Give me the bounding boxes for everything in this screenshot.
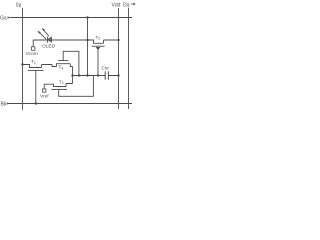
- svg-text:Vcom: Vcom: [26, 51, 38, 57]
- svg-text:T2: T2: [96, 35, 101, 41]
- svg-text:0p: 0p: [16, 2, 22, 8]
- svg-text:OLED: OLED: [42, 44, 56, 50]
- T2 gate lead down to storage node: [97, 50, 99, 76]
- junction T2 drain / Vdd: [117, 39, 119, 41]
- junction vertical net / storage wire: [86, 74, 88, 76]
- transistor T1 (switch TFT, gate to Bk line): [23, 65, 53, 71]
- svg-text:Cst: Cst: [102, 66, 110, 72]
- wire: vertical power bus Vdd (x=118): [118, 8, 120, 109]
- junction T1 source / Cp bus: [21, 63, 23, 65]
- wire: vertical bus Cp (x=22): [22, 8, 24, 110]
- transistor T3 (reset TFT from Vref): [44, 76, 93, 97]
- transistor T2 (drive TFT at Vdd): [88, 40, 119, 46]
- capacitor Cst: [105, 71, 108, 79]
- junction T4 gate loop / storage wire: [78, 74, 80, 76]
- OLED D1 diode symbol: [48, 37, 52, 43]
- svg-text:Bk: Bk: [1, 102, 7, 108]
- svg-text:Ga: Ga: [0, 15, 7, 21]
- svg-text:T3: T3: [59, 79, 64, 85]
- terminal: Vcom supply square: [31, 47, 35, 51]
- terminal: Vref supply square: [43, 89, 46, 92]
- wire: vertical data bus Dq (x=128): [128, 8, 130, 109]
- junction T2 gate / storage wire: [97, 74, 99, 76]
- junction dots: [21, 16, 119, 104]
- OLED D1 light emission arrows: [37, 28, 49, 39]
- T2 gate arrow: [96, 47, 100, 50]
- wire: storage node horizontal wire (y=76): [73, 75, 119, 77]
- wire: OLED anode wire to vertical net: [51, 39, 87, 41]
- svg-text:Vref: Vref: [40, 93, 49, 99]
- junction storage wire / Vdd: [117, 74, 119, 76]
- wire: vertical net from top line to storage node (x=87): [87, 18, 89, 77]
- wire: bottom horizontal scan line Bk (y=103): [8, 103, 132, 105]
- wire: T1 gate lead down to Bk line: [35, 71, 37, 104]
- svg-text:T4: T4: [59, 65, 64, 71]
- wire: top horizontal scan line Ga (y=17): [10, 17, 132, 19]
- junction OLED wire / vertical net: [86, 39, 88, 41]
- svg-text:Dq: Dq: [123, 2, 130, 8]
- svg-text:Vdd: Vdd: [112, 2, 121, 8]
- junction T4 drain / storage wire: [71, 74, 73, 76]
- wire: OLED cathode lead down to Vcom terminal: [33, 40, 47, 47]
- transistor T4 (gate looped to storage node): [52, 51, 79, 75]
- junction top line / vertical net: [86, 16, 88, 18]
- svg-text:T1: T1: [31, 59, 36, 65]
- junction T1 gate / Bk line: [35, 102, 37, 104]
